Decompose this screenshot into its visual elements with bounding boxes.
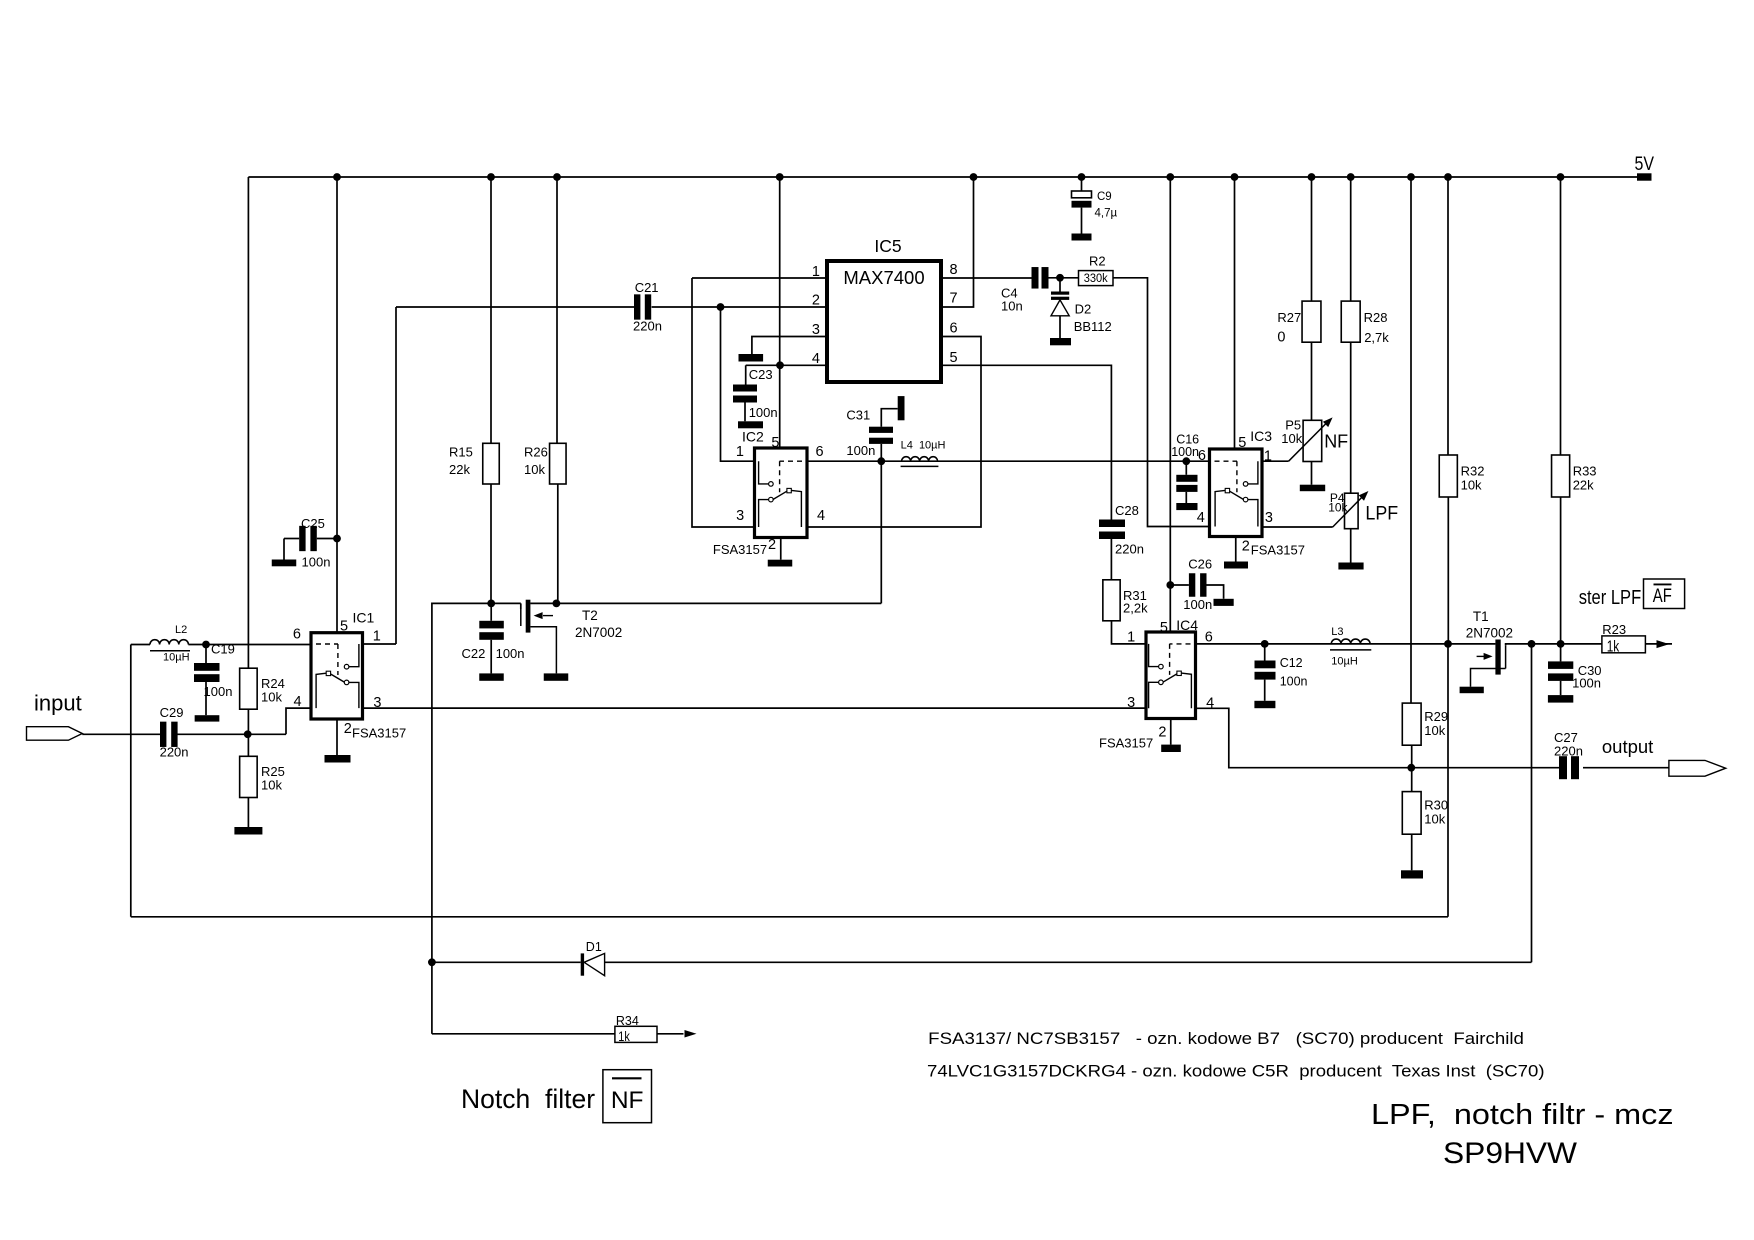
svg-text:T1: T1 [1473,609,1489,624]
svg-text:C29: C29 [160,705,184,720]
svg-text:C26: C26 [1188,557,1212,572]
svg-text:8: 8 [950,262,958,278]
svg-text:220n: 220n [160,745,189,760]
svg-text:5: 5 [1160,620,1168,636]
svg-text:10k: 10k [1424,723,1445,738]
svg-text:C23: C23 [749,367,773,382]
svg-text:FSA3157: FSA3157 [1099,736,1153,751]
svg-text:100n: 100n [749,405,778,420]
svg-text:2N7002: 2N7002 [575,625,622,640]
svg-text:IC3: IC3 [1250,428,1272,444]
svg-text:2: 2 [1242,538,1250,554]
svg-text:10n: 10n [1001,299,1023,314]
svg-text:1k: 1k [618,1028,630,1044]
svg-text:100n: 100n [1183,597,1212,612]
svg-text:3: 3 [736,508,744,524]
svg-text:L2: L2 [175,624,187,636]
svg-text:L3: L3 [1331,626,1343,638]
svg-text:4: 4 [294,694,302,710]
svg-text:R2: R2 [1089,254,1106,269]
svg-text:C21: C21 [635,280,659,295]
svg-text:2N7002: 2N7002 [1466,626,1513,641]
svg-text:C19: C19 [211,642,235,657]
svg-text:R32: R32 [1461,464,1485,479]
svg-text:1: 1 [1264,449,1272,465]
svg-text:input: input [34,691,82,716]
svg-text:4: 4 [1197,510,1205,526]
svg-text:R15: R15 [449,445,473,460]
svg-text:10k: 10k [1424,812,1445,827]
svg-text:220n: 220n [1115,542,1144,557]
svg-text:6: 6 [293,627,301,643]
svg-text:4,7µ: 4,7µ [1095,208,1118,220]
svg-text:FSA3157: FSA3157 [713,542,767,557]
svg-text:6: 6 [816,444,824,460]
svg-text:6: 6 [1198,448,1206,464]
svg-text:10k: 10k [1328,501,1348,515]
svg-text:R29: R29 [1424,709,1448,724]
svg-text:IC1: IC1 [353,610,375,626]
svg-text:100n: 100n [496,646,525,661]
svg-text:10k: 10k [261,778,282,793]
svg-text:5: 5 [1238,435,1246,451]
svg-text:100n: 100n [846,443,875,458]
svg-text:10k: 10k [1281,431,1302,446]
svg-text:C9: C9 [1097,191,1112,203]
svg-text:IC4: IC4 [1176,617,1198,633]
svg-text:5: 5 [950,350,958,366]
svg-text:22k: 22k [1573,478,1594,493]
svg-text:10k: 10k [524,462,545,477]
svg-text:FSA3157: FSA3157 [352,726,406,741]
svg-text:R33: R33 [1573,464,1597,479]
svg-text:1: 1 [373,629,381,645]
svg-text:L4 10µH: L4 10µH [901,439,946,451]
svg-text:4: 4 [812,351,820,367]
svg-text:5V: 5V [1635,154,1655,175]
svg-text:6: 6 [950,320,958,336]
svg-text:BB112: BB112 [1074,319,1112,334]
svg-text:3: 3 [1127,695,1135,711]
svg-text:1: 1 [812,264,820,280]
svg-text:Notch filter: Notch filter [461,1084,595,1114]
svg-text:R30: R30 [1424,798,1448,813]
svg-text:IC2: IC2 [742,429,764,445]
svg-text:3: 3 [812,322,820,338]
svg-text:R26: R26 [524,445,548,460]
svg-text:IC5: IC5 [874,236,901,256]
svg-text:R28: R28 [1364,310,1388,325]
svg-text:1: 1 [736,444,744,460]
svg-text:2: 2 [768,537,776,553]
svg-text:10k: 10k [261,690,282,705]
svg-text:100n: 100n [1280,675,1308,689]
svg-text:22k: 22k [449,462,470,477]
svg-text:R34: R34 [616,1014,639,1028]
svg-text:0: 0 [1277,330,1285,346]
svg-text:100n: 100n [1572,676,1601,691]
svg-text:2,7k: 2,7k [1364,330,1389,345]
svg-text:output: output [1602,736,1653,757]
svg-text:C28: C28 [1115,503,1139,518]
svg-text:NF: NF [1324,431,1348,451]
svg-text:R27: R27 [1277,310,1301,325]
svg-text:220n: 220n [633,319,662,334]
svg-text:MAX7400: MAX7400 [843,267,924,288]
svg-text:T2: T2 [582,608,598,623]
svg-text:330k: 330k [1084,273,1108,285]
svg-text:10µH: 10µH [1331,656,1358,668]
svg-text:4: 4 [817,508,825,524]
svg-text:220n: 220n [1554,744,1583,759]
svg-text:2: 2 [344,721,352,737]
svg-text:74LVC1G3157DCKRG4 - ozn. kodow: 74LVC1G3157DCKRG4 - ozn. kodowe C5R prod… [927,1062,1545,1081]
svg-text:D1: D1 [586,940,602,954]
svg-text:LPF, notch filtr - mcz: LPF, notch filtr - mcz [1371,1099,1674,1131]
svg-text:C31: C31 [846,407,870,422]
svg-text:FSA3157: FSA3157 [1251,542,1305,557]
svg-text:2: 2 [812,293,820,309]
svg-text:2: 2 [1158,725,1166,741]
svg-text:ster LPF: ster LPF [1579,587,1642,609]
svg-text:5: 5 [771,435,779,451]
svg-text:C25: C25 [301,516,325,531]
svg-text:5: 5 [340,619,348,635]
svg-text:3: 3 [1265,510,1273,526]
svg-text:100n: 100n [302,555,331,570]
svg-text:10k: 10k [1461,478,1482,493]
svg-text:2,2k: 2,2k [1123,600,1148,615]
svg-text:C22: C22 [462,646,486,661]
svg-text:LPF: LPF [1365,504,1398,525]
svg-text:1k: 1k [1607,639,1620,656]
svg-text:AF: AF [1653,586,1672,607]
svg-text:R23: R23 [1602,622,1626,637]
svg-text:100n: 100n [204,684,233,699]
svg-text:SP9HVW: SP9HVW [1443,1137,1578,1170]
svg-text:100n: 100n [1171,445,1199,459]
svg-text:NF: NF [611,1087,644,1114]
svg-text:C12: C12 [1280,656,1303,670]
svg-text:D2: D2 [1075,302,1092,317]
svg-text:10µH: 10µH [163,652,190,664]
svg-text:FSA3137/ NC7SB3157 - ozn. ko: FSA3137/ NC7SB3157 - ozn. kodowe B7 (SC7… [928,1029,1524,1048]
svg-text:7: 7 [950,291,958,307]
